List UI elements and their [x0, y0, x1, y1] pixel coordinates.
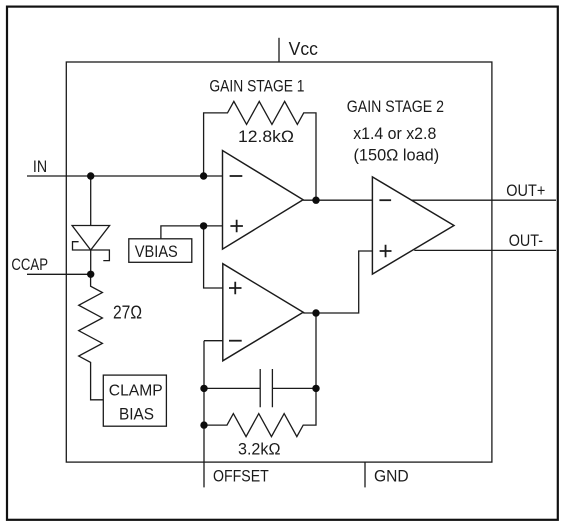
svg-text:GND: GND: [374, 466, 409, 485]
svg-text:OUT+: OUT+: [506, 181, 545, 200]
svg-text:12.8kΩ: 12.8kΩ: [238, 127, 294, 146]
svg-text:OFFSET: OFFSET: [213, 466, 269, 485]
svg-text:OUT-: OUT-: [509, 231, 543, 250]
svg-text:GAIN STAGE 2: GAIN STAGE 2: [347, 97, 444, 116]
svg-text:IN: IN: [33, 157, 47, 176]
svg-text:VBIAS: VBIAS: [135, 242, 178, 261]
svg-text:x1.4 or x2.8: x1.4 or x2.8: [353, 124, 436, 143]
svg-text:27Ω: 27Ω: [113, 303, 142, 323]
svg-text:BIAS: BIAS: [119, 404, 154, 423]
svg-text:Vcc: Vcc: [289, 38, 318, 59]
svg-text:3.2kΩ: 3.2kΩ: [238, 439, 281, 458]
svg-text:CLAMP: CLAMP: [109, 382, 163, 399]
svg-text:GAIN STAGE 1: GAIN STAGE 1: [209, 77, 304, 96]
svg-text:(150Ω load): (150Ω load): [354, 146, 440, 165]
svg-text:CCAP: CCAP: [11, 255, 48, 274]
